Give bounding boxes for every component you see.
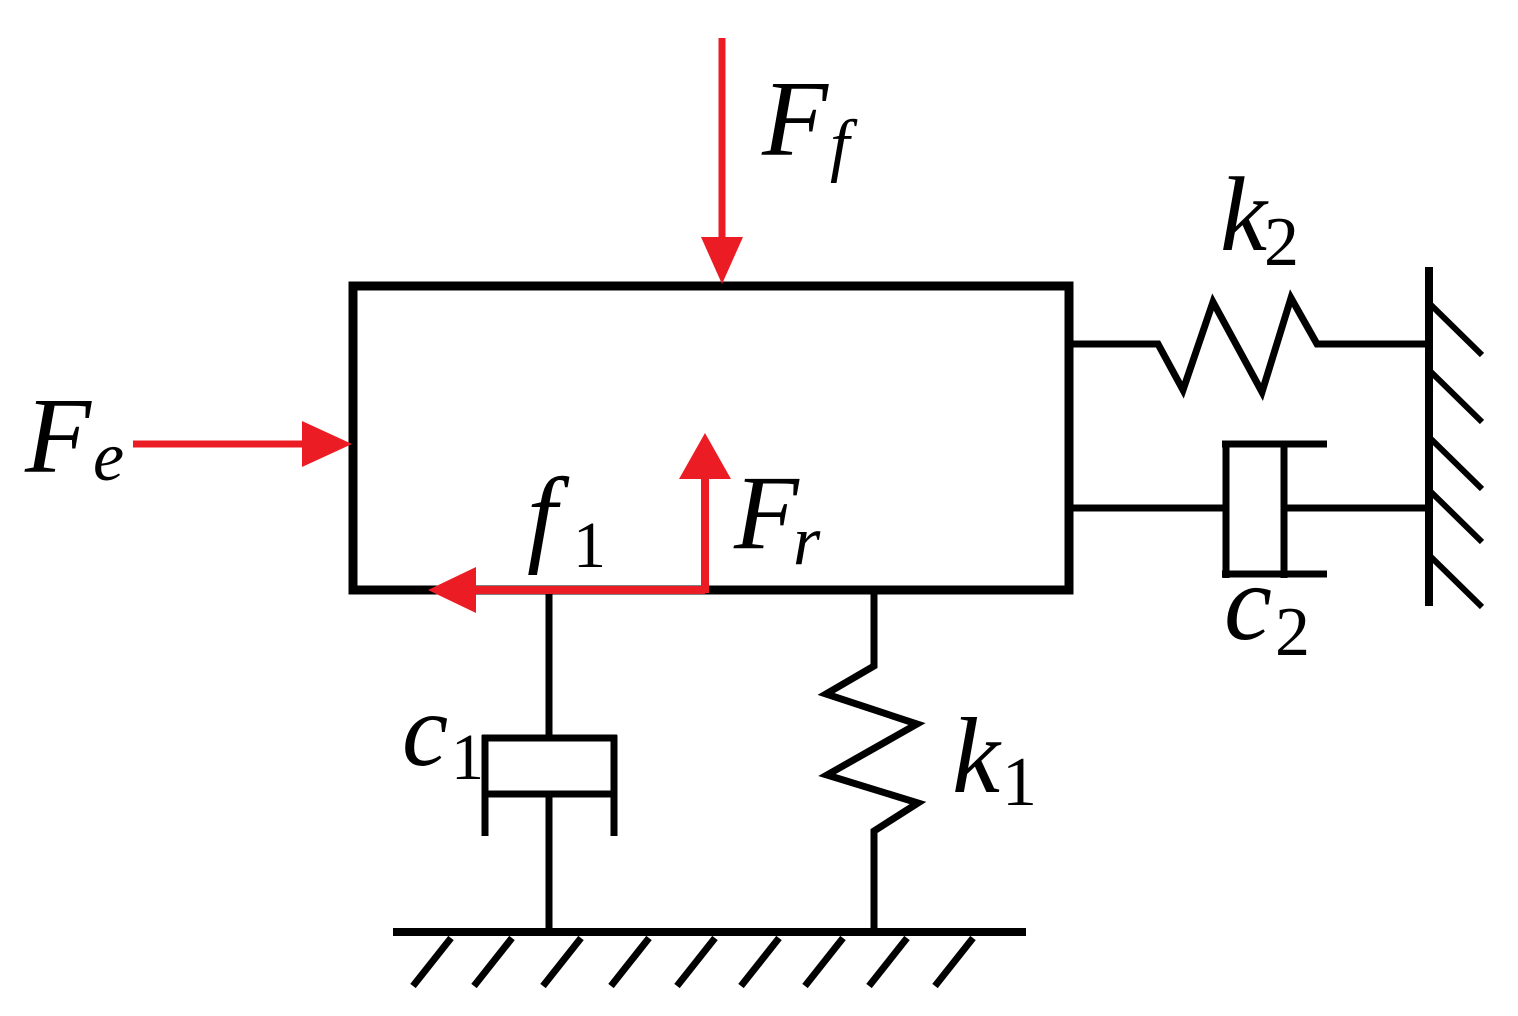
svg-text:1: 1	[1002, 744, 1037, 821]
ground	[393, 932, 1026, 986]
damper c1 rod (upper)	[546, 586, 553, 740]
label k2	[1220, 156, 1299, 281]
damper c2 rod (right, to wall)	[1284, 505, 1430, 512]
svg-text:c: c	[402, 673, 448, 788]
svg-text:1: 1	[573, 509, 606, 582]
svg-text:c: c	[1224, 544, 1272, 663]
damper c2 cylinder	[1222, 441, 1327, 578]
spring k2 (right, to wall)	[1072, 298, 1429, 392]
svg-text:2: 2	[1264, 204, 1299, 281]
svg-text:k: k	[952, 697, 1002, 816]
label Fr	[733, 454, 821, 580]
mass block M	[353, 286, 1069, 590]
damper c2 piston	[1281, 441, 1288, 578]
svg-text:F: F	[733, 454, 800, 571]
force arrow Fr (upward inside mass)	[679, 433, 731, 593]
label Ff	[761, 60, 858, 184]
svg-text:r: r	[793, 503, 821, 580]
label c2	[1224, 544, 1310, 671]
svg-text:F: F	[24, 377, 92, 496]
spring k1 (bottom, to ground)	[826, 588, 918, 932]
svg-text:1: 1	[451, 721, 484, 794]
label Fe	[24, 377, 124, 496]
svg-text:f: f	[830, 107, 858, 184]
label k1	[952, 697, 1037, 821]
svg-text:F: F	[761, 60, 829, 179]
damper c2 rod (left)	[1072, 505, 1226, 512]
damper c1 piston	[482, 791, 617, 798]
force arrow Ff (down onto top of mass)	[701, 38, 743, 284]
svg-text:k: k	[1220, 156, 1269, 273]
force arrow f1 (leftward along bottom edge)	[428, 567, 705, 613]
label f1	[527, 457, 606, 582]
label c1	[402, 673, 484, 794]
wall (right)	[1429, 267, 1482, 607]
damper c1 rod (lower, to ground)	[546, 794, 553, 932]
svg-text:2: 2	[1275, 594, 1310, 671]
svg-text:e: e	[93, 419, 124, 496]
force arrow Fe (into left side of mass)	[133, 421, 352, 467]
damper c1 cylinder	[482, 735, 617, 836]
